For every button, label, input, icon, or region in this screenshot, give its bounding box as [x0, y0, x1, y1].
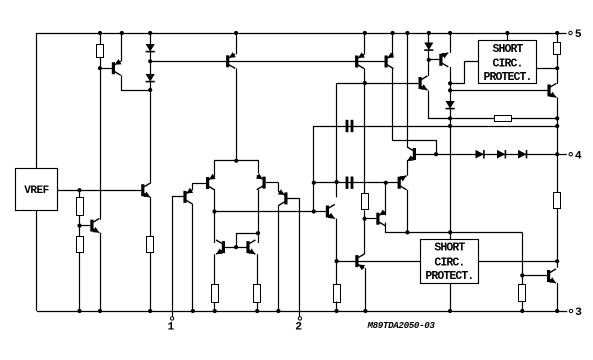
node D1 D2 junction: [148, 59, 152, 63]
node x314 y182: [312, 181, 316, 185]
svg-text:5: 5: [575, 29, 582, 41]
wire base Q15: [80, 225, 91, 227]
node R2 R3 junction: [77, 224, 81, 228]
wire Q9 collector down: [407, 190, 409, 233]
wire left rail lower: [36, 211, 38, 312]
junction top rail: [505, 31, 509, 35]
wire Q5 base: [429, 59, 440, 61]
short circuit protect box U2: [479, 41, 537, 84]
node left collector y211: [212, 209, 216, 213]
wire Q12 to box3: [359, 261, 421, 263]
wire R7 to rail: [336, 302, 338, 312]
svg-text:4: 4: [575, 151, 582, 163]
junction top rail: [148, 31, 152, 35]
wire U3 top: [450, 232, 452, 239]
junction bottom rail: [335, 309, 339, 313]
wire Q6 emitter down: [557, 98, 559, 193]
wire base Q1: [100, 68, 112, 70]
svg-text:PROTECT.: PROTECT.: [425, 270, 473, 283]
wire Q10 collector down: [386, 223, 523, 233]
wire x100 upper: [100, 33, 102, 44]
wire U3 right: [478, 261, 557, 263]
wire Q18 collector down: [192, 204, 194, 311]
wire left rail upper: [36, 33, 38, 168]
wire Q2 emitter to rail: [236, 33, 238, 54]
transistor Q4 mirror PNP right: [385, 52, 395, 68]
wire Q13 base: [522, 275, 547, 277]
transistor Q19 input buffer right: [278, 189, 288, 205]
wire Q5 collector down: [450, 67, 452, 101]
wire Q6 base line: [450, 90, 547, 92]
node Q8 base junction: [434, 152, 438, 156]
diode D7: [518, 150, 526, 159]
node C2 right junction: [384, 181, 388, 185]
svg-text:VREF: VREF: [24, 185, 48, 197]
junction bottom rail: [276, 309, 280, 313]
junction bottom rail: [255, 309, 259, 313]
node Q11 collector cap line: [335, 180, 339, 184]
wire R10 down: [557, 54, 559, 84]
wire R11 down: [557, 208, 559, 268]
wire Q1 emitter to rail: [121, 33, 123, 61]
svg-text:SHORT: SHORT: [434, 242, 465, 255]
transistor Q2: [226, 52, 236, 68]
svg-text:SHORT: SHORT: [492, 43, 523, 56]
wire Q8 collector riser to rail: [407, 33, 409, 147]
node output base junction: [448, 88, 452, 92]
wire R2 R3 chain: [79, 190, 81, 311]
pin 2 terminal: [298, 317, 301, 320]
resistor R2: [77, 198, 84, 216]
wire step to box1: [451, 62, 479, 84]
junction bottom rail: [191, 309, 195, 313]
wire top supply rail pin5: [37, 33, 567, 35]
node diode chain bottom: [148, 88, 152, 92]
transistor Q1: [112, 59, 122, 75]
wire x314 link: [313, 126, 315, 212]
pin 5 terminal: [569, 31, 572, 34]
transistor Q21 mirror right: [246, 240, 255, 254]
pin 1 terminal: [170, 317, 173, 320]
node step wire junction: [448, 81, 452, 85]
junction top rail: [405, 31, 409, 35]
node x450 y126: [448, 124, 452, 128]
resistor R1: [97, 45, 104, 58]
wire D4 down: [450, 109, 452, 233]
node base Q1: [98, 66, 102, 70]
svg-text:CIRC.: CIRC.: [434, 256, 464, 269]
wire Q20 emitter down: [214, 254, 216, 284]
junction top rail: [555, 31, 559, 35]
wire x429 top: [428, 33, 430, 43]
wire D3 down: [428, 50, 430, 76]
wire Q1 collector down: [122, 76, 151, 91]
svg-text:M89TDA2050-03: M89TDA2050-03: [366, 320, 435, 331]
resistor R8: [362, 194, 369, 210]
wire Q11 emitter down: [336, 219, 338, 262]
wire Q3 collector down: [364, 69, 366, 194]
node x557 y126: [555, 124, 559, 128]
wire Q14 emitter down: [150, 197, 152, 236]
wire Q4 collector down: [393, 69, 437, 155]
transistor Q3 mirror PNP left: [355, 52, 365, 68]
node Q13 base junction: [520, 273, 524, 277]
wire y118 right: [512, 118, 557, 120]
transistor Q8: [407, 147, 416, 161]
wire cap line y126: [314, 126, 557, 128]
wire bias line y61: [150, 61, 385, 63]
wire Q7 emitter down: [429, 91, 495, 119]
wire VREF output: [58, 190, 142, 192]
node U2 right junction: [555, 66, 559, 70]
wire Q19 emitter link: [266, 182, 278, 184]
resistor R4: [147, 237, 154, 253]
wire Q12 base: [337, 261, 356, 263]
wire R5 to rail: [214, 302, 216, 311]
transistor Q12: [355, 254, 365, 270]
wire R10 top: [557, 33, 559, 43]
transistor Q6 output top: [547, 83, 556, 97]
junction bottom rail: [148, 309, 152, 313]
svg-text:PROTECT.: PROTECT.: [483, 71, 531, 84]
node mirror link right: [256, 231, 260, 235]
wire U3 bottom to rail: [450, 283, 452, 311]
diode D4: [446, 101, 455, 109]
wire U2 top to rail: [507, 33, 509, 40]
node x450 y118: [448, 116, 452, 120]
resistor R10: [554, 43, 561, 55]
node bias junction y218: [363, 217, 367, 221]
wire mirror diode link: [237, 234, 259, 248]
resistor R3: [77, 237, 84, 253]
wire Q2 collector tail: [236, 68, 238, 160]
node box3 right junction: [555, 259, 559, 263]
wire bottom rail pin3: [37, 311, 567, 313]
resistor R11: [554, 193, 561, 209]
transistor Q14: [141, 183, 150, 197]
svg-text:2: 2: [295, 321, 302, 333]
capacitor C1: [346, 120, 354, 132]
wire diff tail tee: [215, 161, 259, 176]
wire U2 right: [536, 68, 557, 70]
wire Q3 emitter to rail: [364, 33, 366, 54]
pin 3 terminal: [569, 309, 572, 312]
wire signal y211 to Vas: [215, 211, 326, 213]
transistor Q17 input right PNP: [256, 173, 266, 189]
junction bottom rail: [448, 309, 452, 313]
capacitor C2: [346, 177, 354, 189]
diode D5: [476, 150, 484, 159]
transistor Q15: [90, 219, 99, 233]
node x314 y211: [312, 209, 316, 213]
wire Q13 emitter to rail: [557, 283, 559, 311]
resistor R12: [519, 285, 526, 302]
wire Q11 collector riser: [336, 83, 338, 197]
wire Q15 emitter to rail: [100, 233, 102, 311]
wire cap line y182: [314, 182, 398, 184]
junction top rail: [448, 31, 452, 35]
svg-text:3: 3: [575, 307, 582, 319]
resistor R9: [495, 116, 512, 122]
wire Q18 base to pin1: [173, 197, 184, 319]
wire pin4 stub: [557, 154, 567, 156]
transistor Q13 output bottom: [547, 269, 556, 283]
wire Q4 emitter to rail: [392, 33, 394, 54]
resistor R6: [254, 285, 261, 303]
wire Q12 collector riser: [364, 250, 366, 254]
junction top rail: [234, 31, 238, 35]
transistor Q10: [376, 210, 386, 226]
wire D2 down to Q14 collector: [150, 82, 152, 184]
junction bottom rail: [520, 309, 524, 313]
node VREF-R2: [77, 188, 81, 192]
wire Q9 emitter riser: [407, 161, 409, 176]
junction bottom rail: [363, 309, 367, 313]
svg-text:1: 1: [168, 321, 175, 333]
wire D1-D2: [150, 52, 152, 74]
resistor R7: [334, 285, 341, 303]
node y232 x407: [405, 230, 409, 234]
wire y232 corner to Q13 base: [522, 233, 524, 285]
wire Q17 collector riser: [258, 190, 260, 243]
wire x100 mid: [100, 57, 102, 220]
short circuit protect box U3: [421, 240, 479, 284]
wire R4 to rail: [150, 252, 152, 311]
junction top rail: [363, 31, 367, 35]
wire y83: [337, 83, 419, 85]
resistor R5: [212, 285, 219, 303]
junction bottom rail: [98, 309, 102, 313]
node mirror base junction: [234, 245, 238, 249]
node x557 pin4: [555, 152, 559, 156]
junction bottom rail: [77, 309, 81, 313]
node x557 y118: [555, 116, 559, 120]
wire Q19 collector down: [278, 206, 280, 312]
wire Q12 emitter down: [365, 268, 367, 311]
wire Q19 emitter drop: [278, 183, 280, 192]
diode D3: [424, 43, 433, 51]
wire R8 to node: [364, 210, 366, 218]
wire node down to Q12 collector: [364, 219, 366, 250]
wire mirror bases: [225, 247, 247, 249]
wire Q16 collector riser: [214, 190, 216, 243]
wire Q8 base line pin4 diodes: [416, 154, 556, 156]
wire Q19 base to pin2: [288, 199, 300, 319]
transistor Q7 driver: [419, 76, 428, 90]
wire diode chain top: [150, 33, 152, 44]
junction top rail: [120, 31, 124, 35]
wire Q10 emitter riser: [385, 183, 387, 216]
wire Q21 emitter down: [257, 254, 259, 284]
transistor Q18 input buffer left: [183, 188, 193, 204]
junction bottom rail: [213, 309, 217, 313]
diode D6: [497, 150, 505, 159]
transistor Q5: [439, 53, 448, 67]
transistor Q20 mirror left: [216, 240, 225, 254]
wire Q18 emitter link: [192, 183, 206, 185]
pin 4 terminal: [569, 153, 572, 156]
diode D2: [146, 74, 155, 82]
wire R6 to rail: [257, 302, 259, 311]
wire Q18 emitter riser: [192, 183, 194, 190]
node y232 x450: [448, 230, 452, 234]
transistor Q16 input left PNP: [206, 174, 216, 190]
vref box U1: [16, 169, 58, 211]
wire Q11 emitter to R7: [336, 261, 338, 284]
junction bottom rail: [555, 309, 559, 313]
wire node to Q10 base: [365, 218, 377, 220]
diode D1: [146, 44, 155, 52]
node tail junction: [234, 159, 238, 163]
wire R12 to rail: [522, 302, 524, 312]
junction top rail: [427, 31, 431, 35]
junction top rail: [98, 31, 102, 35]
wire Q5 emitter to rail: [450, 33, 452, 53]
node Q12 base junction: [335, 259, 339, 263]
node Q3 collector y83: [363, 81, 367, 85]
transistor Q11 Vas: [326, 204, 335, 218]
junction top rail: [391, 31, 395, 35]
transistor Q9: [398, 176, 407, 190]
node Q5 base junction: [427, 58, 431, 62]
svg-text:CIRC.: CIRC.: [492, 58, 522, 71]
